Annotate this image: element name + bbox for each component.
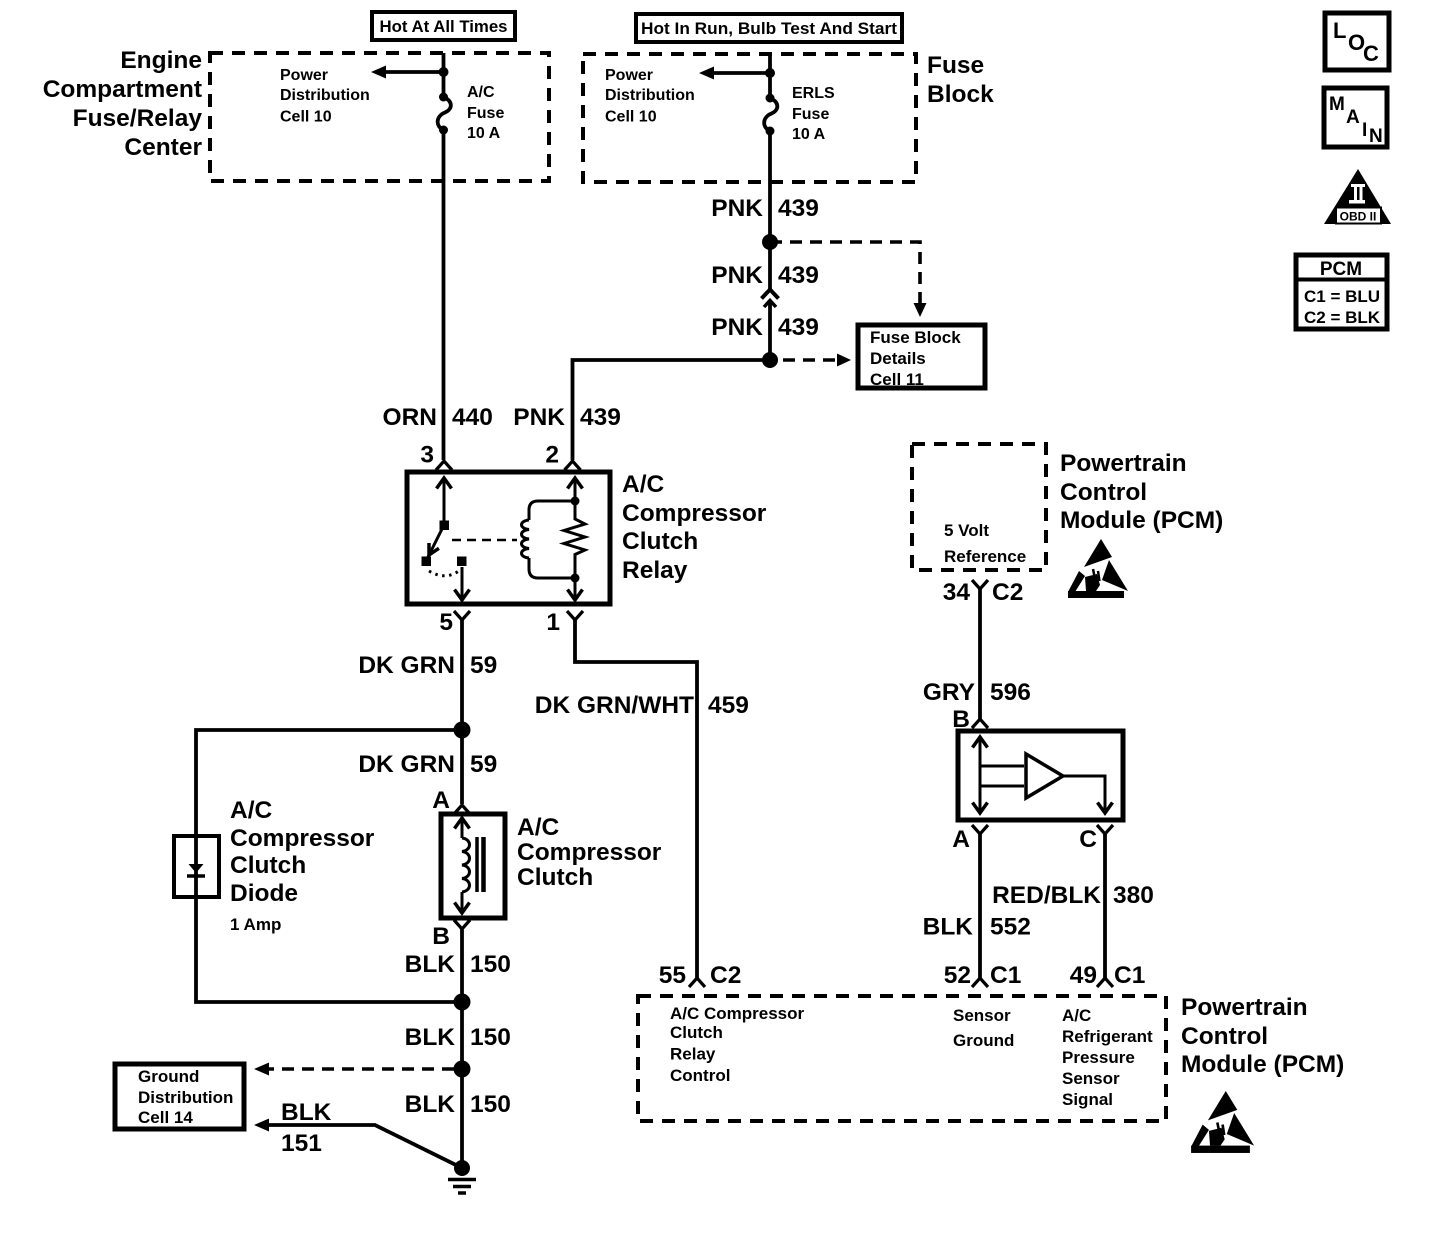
svg-text:Clutch: Clutch (230, 852, 306, 879)
svg-text:151: 151 (281, 1130, 322, 1157)
svg-text:55: 55 (659, 962, 686, 989)
svg-text:C: C (1079, 826, 1097, 853)
svg-text:59: 59 (470, 751, 497, 778)
svg-text:Fuse: Fuse (792, 106, 829, 123)
svg-text:OBD II: OBD II (1340, 210, 1377, 224)
svg-text:439: 439 (778, 314, 819, 341)
svg-text:380: 380 (1113, 882, 1154, 909)
svg-text:439: 439 (580, 404, 621, 431)
svg-text:440: 440 (452, 404, 493, 431)
svg-text:A/C: A/C (230, 797, 273, 824)
svg-text:Clutch: Clutch (517, 864, 593, 891)
svg-text:C1: C1 (990, 962, 1021, 989)
svg-text:ERLS: ERLS (792, 85, 835, 102)
svg-text:A/C: A/C (517, 814, 560, 841)
svg-text:RED/BLK: RED/BLK (992, 882, 1101, 909)
svg-text:Cell 10: Cell 10 (280, 109, 332, 126)
svg-text:B: B (432, 923, 450, 950)
svg-text:Cell 11: Cell 11 (870, 370, 924, 389)
svg-text:Compartment: Compartment (43, 76, 202, 103)
svg-text:34: 34 (943, 579, 971, 606)
svg-text:Powertrain: Powertrain (1181, 994, 1308, 1021)
svg-text:A/C: A/C (1062, 1006, 1091, 1025)
svg-text:5 Volt: 5 Volt (944, 521, 989, 540)
svg-text:A: A (432, 787, 450, 814)
svg-text:10 A: 10 A (792, 126, 826, 143)
svg-text:150: 150 (470, 951, 511, 978)
svg-text:Compressor: Compressor (622, 500, 767, 527)
svg-text:Relay: Relay (622, 557, 688, 584)
svg-text:Center: Center (124, 134, 202, 161)
svg-text:1: 1 (546, 609, 560, 636)
svg-text:150: 150 (470, 1024, 511, 1051)
svg-text:A: A (1346, 107, 1360, 128)
svg-text:C2 = BLK: C2 = BLK (1304, 308, 1381, 327)
svg-text:ORN: ORN (383, 404, 437, 431)
svg-text:Power: Power (280, 67, 328, 84)
svg-text:Refrigerant: Refrigerant (1062, 1027, 1153, 1046)
svg-text:59: 59 (470, 652, 497, 679)
svg-text:PNK: PNK (711, 195, 763, 222)
svg-text:Sensor: Sensor (953, 1006, 1011, 1025)
svg-text:52: 52 (944, 962, 971, 989)
svg-text:Control: Control (1060, 479, 1147, 506)
svg-text:Module (PCM): Module (PCM) (1060, 507, 1223, 534)
svg-text:A: A (952, 826, 970, 853)
svg-text:Distribution: Distribution (138, 1088, 233, 1107)
svg-text:L: L (1333, 18, 1346, 43)
svg-text:49: 49 (1070, 962, 1097, 989)
svg-text:Compressor: Compressor (517, 839, 662, 866)
svg-text:Fuse: Fuse (927, 52, 984, 79)
svg-text:Control: Control (1181, 1023, 1268, 1050)
svg-text:596: 596 (990, 679, 1031, 706)
svg-text:1 Amp: 1 Amp (230, 915, 281, 934)
svg-text:PNK: PNK (513, 404, 565, 431)
svg-text:Ground: Ground (953, 1031, 1014, 1050)
svg-text:B: B (952, 706, 970, 733)
svg-text:A/C Compressor: A/C Compressor (670, 1004, 805, 1023)
svg-text:439: 439 (778, 195, 819, 222)
svg-text:Distribution: Distribution (280, 87, 370, 104)
svg-text:BLK: BLK (923, 914, 974, 941)
svg-text:BLK: BLK (281, 1099, 332, 1126)
svg-text:DK GRN: DK GRN (358, 751, 455, 778)
svg-text:PNK: PNK (711, 314, 763, 341)
svg-text:Power: Power (605, 67, 653, 84)
svg-text:Sensor: Sensor (1062, 1069, 1120, 1088)
svg-text:Compressor: Compressor (230, 825, 375, 852)
svg-text:M: M (1329, 94, 1345, 115)
svg-text:PCM: PCM (1320, 259, 1362, 280)
svg-text:5: 5 (439, 609, 453, 636)
svg-text:I: I (1362, 120, 1367, 141)
svg-text:Hot At All Times: Hot At All Times (380, 17, 508, 36)
svg-text:Relay: Relay (670, 1045, 716, 1064)
svg-text:459: 459 (708, 692, 749, 719)
svg-text:Cell 10: Cell 10 (605, 109, 657, 126)
svg-text:Control: Control (670, 1066, 730, 1085)
svg-text:Fuse: Fuse (467, 105, 504, 122)
svg-text:BLK: BLK (405, 1091, 456, 1118)
svg-text:Block: Block (927, 81, 994, 108)
svg-text:552: 552 (990, 914, 1031, 941)
svg-text:C: C (1363, 41, 1379, 66)
svg-text:Clutch: Clutch (670, 1023, 723, 1042)
svg-text:Engine: Engine (120, 47, 202, 74)
svg-text:439: 439 (778, 262, 819, 289)
svg-text:Cell 14: Cell 14 (138, 1108, 193, 1127)
svg-text:BLK: BLK (405, 951, 456, 978)
svg-text:C2: C2 (710, 962, 741, 989)
svg-text:10 A: 10 A (467, 125, 501, 142)
svg-text:DK GRN/WHT: DK GRN/WHT (535, 692, 694, 719)
svg-text:DK GRN: DK GRN (358, 652, 455, 679)
svg-text:A/C: A/C (622, 471, 665, 498)
svg-text:BLK: BLK (405, 1024, 456, 1051)
svg-text:C1: C1 (1114, 962, 1145, 989)
svg-text:3: 3 (420, 442, 434, 469)
svg-text:Reference: Reference (944, 547, 1026, 566)
svg-text:C1 = BLU: C1 = BLU (1304, 287, 1380, 306)
svg-text:C2: C2 (992, 579, 1023, 606)
svg-text:Signal: Signal (1062, 1090, 1113, 1109)
svg-text:150: 150 (470, 1091, 511, 1118)
svg-text:Diode: Diode (230, 880, 298, 907)
svg-text:Fuse Block: Fuse Block (870, 328, 961, 347)
svg-text:A/C: A/C (467, 84, 495, 101)
svg-text:PNK: PNK (711, 262, 763, 289)
svg-text:2: 2 (545, 442, 559, 469)
svg-text:Fuse/Relay: Fuse/Relay (73, 105, 203, 132)
svg-text:Module (PCM): Module (PCM) (1181, 1051, 1344, 1078)
svg-text:GRY: GRY (923, 679, 975, 706)
svg-text:Clutch: Clutch (622, 528, 698, 555)
svg-text:Hot In Run, Bulb Test And Star: Hot In Run, Bulb Test And Start (641, 19, 897, 38)
svg-text:Details: Details (870, 349, 926, 368)
svg-text:Powertrain: Powertrain (1060, 450, 1187, 477)
svg-text:Pressure: Pressure (1062, 1048, 1135, 1067)
svg-text:Distribution: Distribution (605, 87, 695, 104)
svg-text:Ground: Ground (138, 1067, 199, 1086)
svg-text:N: N (1369, 126, 1383, 147)
